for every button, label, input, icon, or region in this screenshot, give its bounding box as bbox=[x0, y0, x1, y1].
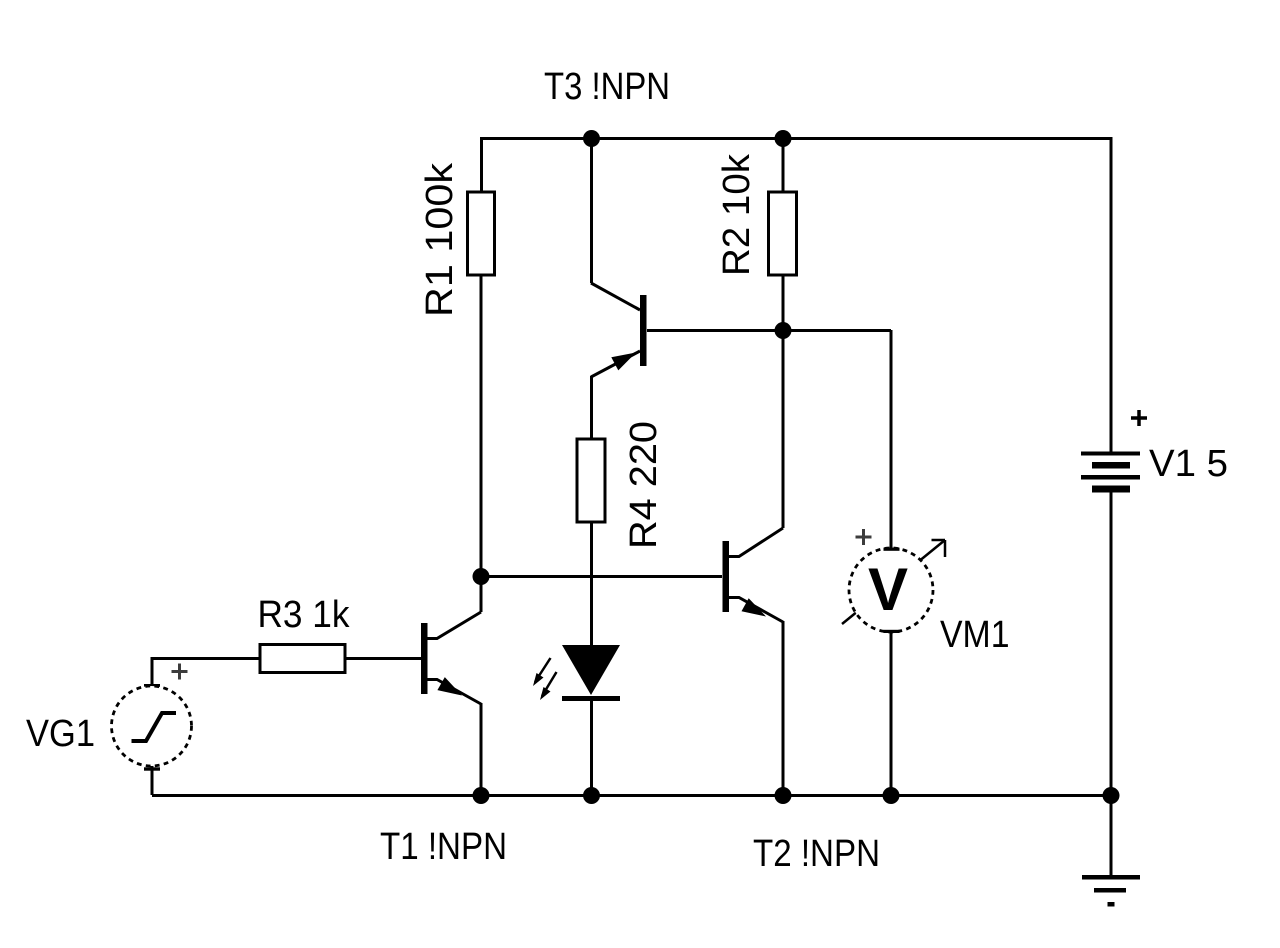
wire T3 base line bbox=[647, 329, 891, 332]
svg-text:V: V bbox=[868, 556, 908, 623]
wire VG1 bottom bbox=[151, 765, 154, 795]
svg-text:T3 !NPN: T3 !NPN bbox=[544, 66, 670, 108]
node A base bus bbox=[473, 568, 490, 585]
wire right rail to battery bbox=[1110, 137, 1113, 453]
wire T2 collector riser bbox=[782, 330, 785, 528]
wire R4 to LED bbox=[590, 522, 593, 645]
svg-text:R2 10k: R2 10k bbox=[716, 153, 758, 276]
ground bbox=[1082, 875, 1140, 907]
wire R3 to T1 base bbox=[345, 657, 421, 660]
wire R1 bottom to T1 collector bbox=[480, 275, 483, 612]
svg-text:T2 !NPN: T2 !NPN bbox=[753, 833, 880, 875]
node bottom x783 bbox=[775, 787, 792, 804]
svg-text:V1 5: V1 5 bbox=[1149, 443, 1228, 485]
wire bottom rail bbox=[152, 794, 1111, 797]
svg-text:VG1: VG1 bbox=[26, 713, 95, 755]
node bottom x481 bbox=[473, 787, 490, 804]
svg-text:R3 1k: R3 1k bbox=[258, 594, 351, 636]
transistor T1 bbox=[421, 612, 481, 704]
resistor R3 bbox=[260, 645, 345, 673]
resistor R4 bbox=[577, 439, 605, 522]
battery V1 bbox=[1081, 410, 1147, 493]
node bottom right battery bbox=[1103, 787, 1120, 804]
transistor T3 bbox=[591, 283, 647, 377]
resistor R2 bbox=[769, 192, 797, 275]
LED D1 bbox=[533, 645, 620, 701]
voltmeter VM1 bbox=[842, 529, 945, 633]
svg-text:VM1: VM1 bbox=[940, 614, 1010, 656]
node top rail x783 bbox=[775, 130, 792, 147]
source VG1 bbox=[112, 664, 192, 771]
node bottom x591 bbox=[583, 787, 600, 804]
wire base bus node A to T2 base bbox=[480, 575, 722, 578]
wire T3 collector riser bbox=[590, 137, 593, 283]
transistor T2 bbox=[723, 528, 784, 622]
wire top rail V+ bbox=[480, 137, 1111, 140]
svg-text:T1 !NPN: T1 !NPN bbox=[380, 826, 507, 868]
wire T2 emitter drop bbox=[782, 621, 785, 795]
wire R1 top stub bbox=[480, 137, 483, 192]
svg-text:R1 100k: R1 100k bbox=[419, 162, 461, 317]
wire battery to ground bbox=[1110, 489, 1113, 876]
wire VG1 top to R3 bbox=[152, 659, 260, 688]
node top rail x591 bbox=[583, 130, 600, 147]
node bottom x891 bbox=[883, 787, 900, 804]
resistor R1 bbox=[468, 192, 495, 275]
wire T3 emitter to R4 bbox=[590, 376, 593, 439]
wire R2 top stub bbox=[782, 137, 785, 192]
svg-text:R4 220: R4 220 bbox=[623, 421, 665, 549]
wire VM1 riser bbox=[890, 330, 893, 548]
wire R2 bottom to node B bbox=[782, 275, 785, 330]
node B T3 base / R2 / T2 collector bbox=[775, 322, 792, 339]
wire LED to bottom rail bbox=[590, 699, 593, 795]
wire VM1 drop bbox=[890, 632, 893, 795]
wire T1 emitter drop bbox=[480, 703, 483, 795]
